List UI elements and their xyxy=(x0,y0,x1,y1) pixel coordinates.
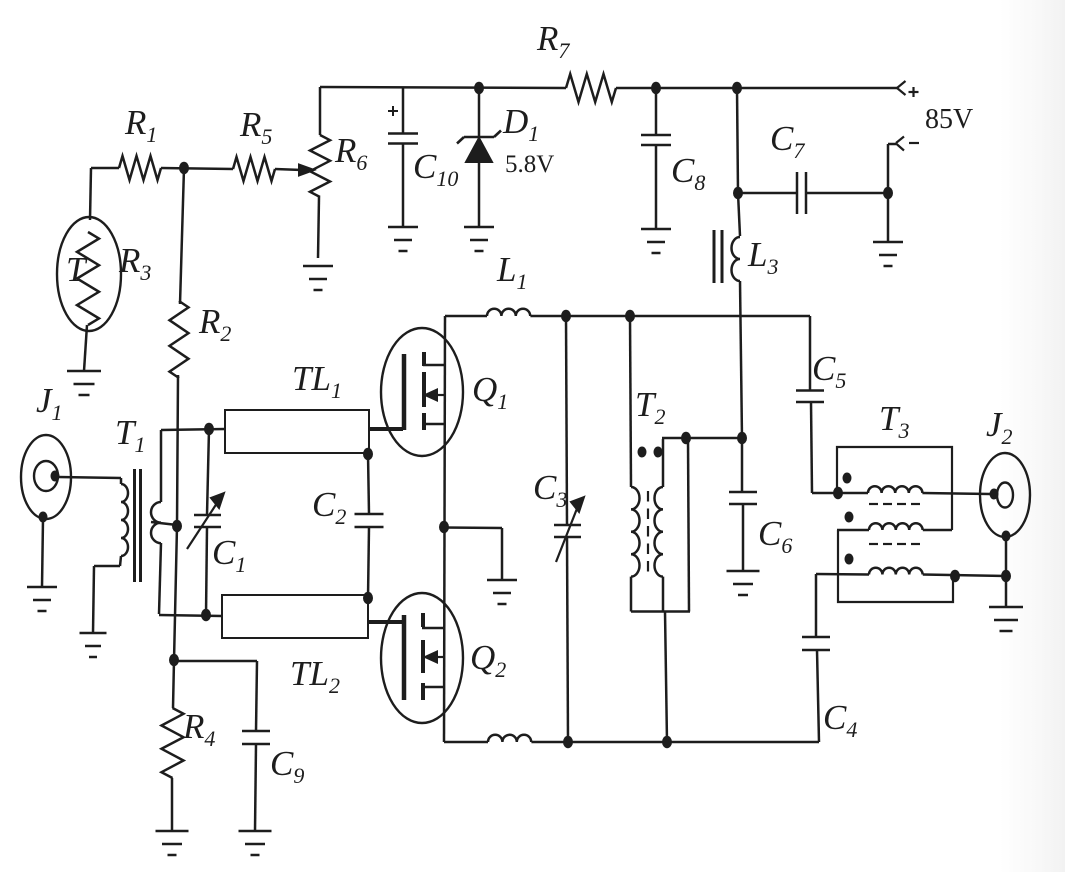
svg-text:85V: 85V xyxy=(925,104,973,135)
svg-text:5.8V: 5.8V xyxy=(505,151,554,178)
svg-text:T: T xyxy=(66,250,88,289)
